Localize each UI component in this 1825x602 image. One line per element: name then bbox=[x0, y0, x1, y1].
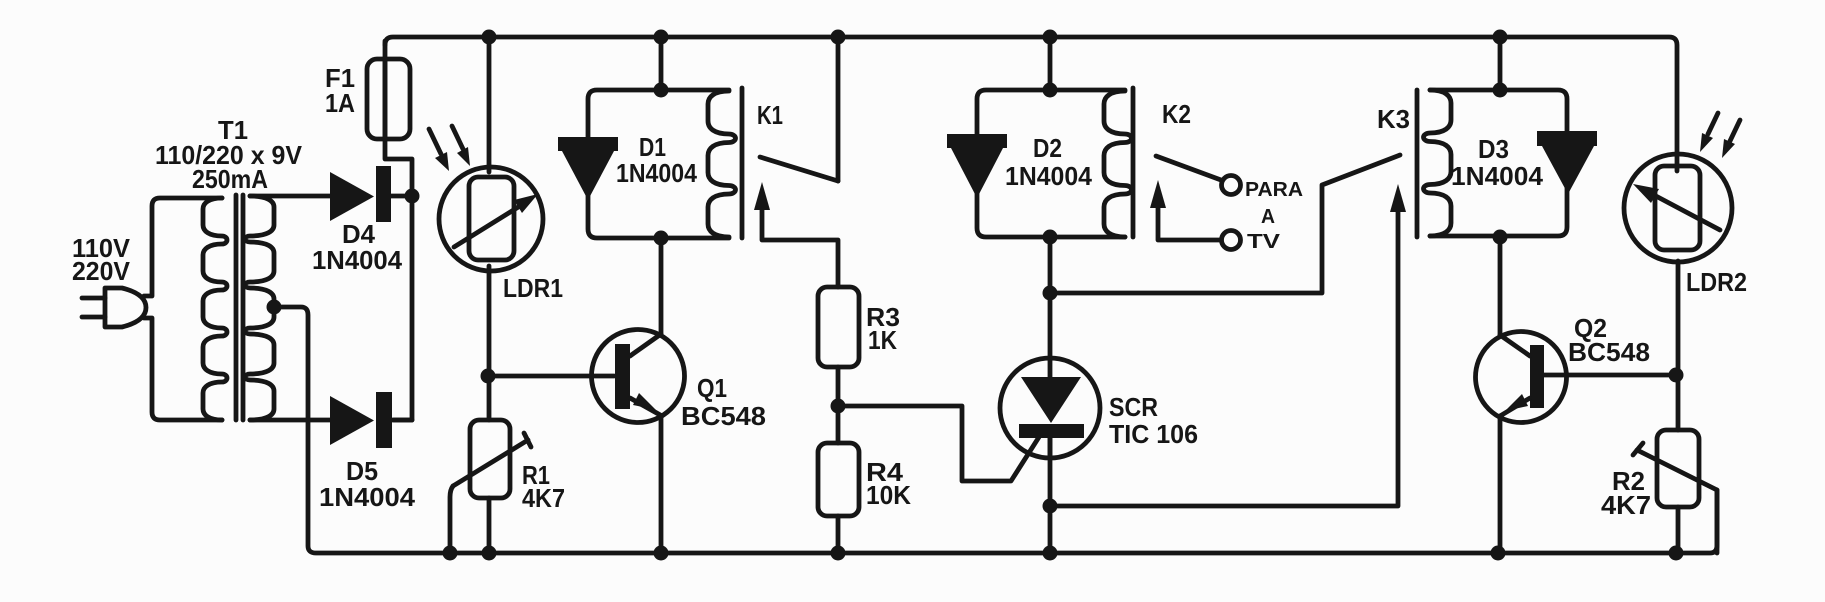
label K1 bbox=[757, 100, 783, 130]
relay K2 contact upper terminal bbox=[1222, 176, 1241, 195]
label LDR1 bbox=[503, 273, 563, 303]
wire secondary top to D4 bbox=[250, 194, 330, 199]
node K2 frame bottom bbox=[1043, 230, 1058, 245]
node top rail above D2 bbox=[1043, 30, 1058, 45]
node rectifier output at D4 cathode bbox=[405, 189, 420, 204]
svg-text:K3: K3 bbox=[1377, 104, 1410, 134]
label F1 1A bbox=[325, 63, 355, 118]
wire top supply rail bbox=[385, 37, 1677, 154]
label Q1 BC548 bbox=[681, 373, 766, 431]
relay K1 frame bbox=[588, 90, 729, 238]
wire SCR cathode to bottom rail bbox=[1048, 437, 1053, 553]
label R1 4K7 bbox=[522, 460, 565, 513]
node SCR cathode branch bbox=[1043, 499, 1058, 514]
svg-text:D2: D2 bbox=[1033, 133, 1062, 163]
node top rail above D1 bbox=[654, 30, 669, 45]
SCR TIC106 bbox=[1000, 358, 1100, 458]
svg-text:1N4004: 1N4004 bbox=[319, 482, 416, 512]
fuse F1 bbox=[367, 41, 412, 196]
svg-text:PARA: PARA bbox=[1245, 179, 1303, 201]
node secondary center tap bbox=[267, 300, 282, 315]
relay K1 coil bbox=[708, 91, 736, 237]
label Q2 BC548 bbox=[1568, 313, 1650, 367]
svg-text:1N4004: 1N4004 bbox=[312, 245, 403, 275]
relay K3 frame bbox=[1430, 90, 1567, 236]
label R4 10K bbox=[866, 457, 911, 510]
svg-text:LDR2: LDR2 bbox=[1686, 267, 1747, 297]
node LDR1 / R1 / Q1 base bbox=[481, 369, 496, 384]
label K3 bbox=[1377, 104, 1410, 134]
wire SCR cathode to K3 contact arrow bbox=[1050, 184, 1406, 506]
AC plug bbox=[82, 288, 146, 327]
transistor Q2 BC548 bbox=[1476, 332, 1677, 423]
svg-text:4K7: 4K7 bbox=[522, 483, 565, 513]
wire K1 frame to Q1 collector bbox=[659, 238, 664, 334]
label D2 1N4004 bbox=[1005, 133, 1093, 191]
relay K2 contact arm bbox=[1156, 156, 1221, 180]
label T1 110/220 x 9V 250mA bbox=[155, 115, 303, 194]
relay K2 frame bbox=[977, 90, 1125, 237]
relay K2 contact arrow bbox=[1150, 180, 1221, 240]
LDR1 bbox=[439, 37, 543, 420]
relay K2 coil bbox=[1104, 91, 1132, 237]
wire Q1 emitter to bottom rail bbox=[659, 416, 664, 553]
svg-text:10K: 10K bbox=[866, 480, 911, 510]
svg-text:1K: 1K bbox=[868, 325, 897, 355]
diode D1 bbox=[558, 137, 618, 200]
relay K1 core bbox=[740, 88, 745, 238]
label D3 1N4004 bbox=[1451, 134, 1544, 191]
label D5 1N4004 bbox=[319, 456, 416, 512]
node D2 bottom branch bbox=[1043, 286, 1058, 301]
node K1 frame top bbox=[654, 83, 669, 98]
diode D2 bbox=[947, 134, 1007, 198]
wire rail to K3 frame bbox=[1498, 37, 1503, 90]
relay K3 core bbox=[1415, 90, 1420, 237]
svg-text:220V: 220V bbox=[72, 256, 131, 286]
svg-text:1A: 1A bbox=[325, 88, 355, 118]
LDR2 bbox=[1624, 154, 1732, 430]
node top rail above K1 contact bbox=[831, 30, 846, 45]
wire secondary bottom to D5 bbox=[250, 418, 330, 423]
svg-text:TV: TV bbox=[1247, 231, 1281, 253]
LDR1 light arrows bbox=[429, 126, 470, 171]
wire rectifier output to D5 cathode bbox=[394, 196, 412, 420]
relay K1 contact arm bbox=[760, 37, 838, 181]
svg-text:BC548: BC548 bbox=[1568, 337, 1650, 367]
svg-text:1N4004: 1N4004 bbox=[1451, 161, 1544, 191]
svg-text:1N4004: 1N4004 bbox=[1005, 161, 1093, 191]
wire rail to K1 frame bbox=[659, 37, 664, 90]
label D1 1N4004 bbox=[616, 132, 697, 188]
relay K3 coil bbox=[1424, 90, 1451, 236]
node bottom rail at SCR bbox=[1043, 546, 1058, 561]
diode D3 bbox=[1537, 131, 1597, 194]
relay K2 contact lower terminal bbox=[1222, 231, 1241, 250]
resistor R3 1K bbox=[818, 287, 859, 443]
node Q2 base / LDR2 / R2 bbox=[1669, 368, 1684, 383]
svg-text:K1: K1 bbox=[757, 100, 783, 130]
node bottom rail at R2 bbox=[1669, 546, 1684, 561]
node top rail above LDR1 bbox=[482, 30, 497, 45]
transformer T1 secondary winding bbox=[245, 196, 274, 420]
svg-text:250mA: 250mA bbox=[192, 164, 268, 194]
wire plug to transformer primary bbox=[144, 198, 222, 420]
diode D4 bbox=[330, 166, 412, 222]
svg-text:A: A bbox=[1261, 206, 1275, 228]
svg-text:Q1: Q1 bbox=[697, 373, 727, 403]
label K2 bbox=[1162, 99, 1191, 129]
transformer T1 primary winding bbox=[203, 198, 227, 420]
node bottom rail at R1 wiper bbox=[443, 546, 458, 561]
svg-text:1N4004: 1N4004 bbox=[616, 158, 697, 188]
wire D2 branch to K3 contact arm bbox=[1050, 155, 1400, 293]
node R3 R4 junction bbox=[831, 399, 846, 414]
relay K2 core bbox=[1131, 88, 1136, 237]
node K3 frame bottom bbox=[1493, 230, 1508, 245]
label PARA A TV bbox=[1245, 179, 1303, 253]
potentiometer R1 4K7 bbox=[450, 420, 531, 553]
svg-text:BC548: BC548 bbox=[681, 401, 766, 431]
wire rail to K2 frame bbox=[1048, 37, 1053, 90]
label SCR TIC106 bbox=[1109, 392, 1198, 449]
node K2 frame top bbox=[1043, 83, 1058, 98]
svg-text:4K7: 4K7 bbox=[1601, 490, 1651, 520]
node top rail above K3 bbox=[1493, 30, 1508, 45]
resistor R4 10K bbox=[818, 443, 859, 553]
wire bottom rail with center-tap riser bbox=[274, 307, 1717, 553]
diode D5 bbox=[330, 392, 412, 448]
svg-text:K2: K2 bbox=[1162, 99, 1191, 129]
node bottom rail at Q1 emitter bbox=[654, 546, 669, 561]
label LDR2 bbox=[1686, 267, 1747, 297]
svg-text:TIC 106: TIC 106 bbox=[1109, 419, 1198, 449]
svg-text:SCR: SCR bbox=[1109, 392, 1158, 422]
node bottom rail at R4 bbox=[831, 546, 846, 561]
svg-text:D3: D3 bbox=[1478, 134, 1509, 164]
node bottom rail at Q2 emitter bbox=[1491, 546, 1506, 561]
svg-text:LDR1: LDR1 bbox=[503, 273, 563, 303]
node K3 frame top bbox=[1493, 83, 1508, 98]
wire K3 frame to Q2 collector bbox=[1498, 237, 1503, 335]
transistor Q1 BC548 bbox=[489, 330, 685, 423]
transformer T1 core bbox=[236, 195, 243, 420]
label R3 1K bbox=[866, 302, 900, 355]
label 110V 220V bbox=[72, 233, 131, 286]
node K1 frame bottom bbox=[654, 231, 669, 246]
LDR2 light arrows bbox=[1700, 113, 1740, 158]
wire R3/R4 junction to SCR gate bbox=[838, 406, 1039, 481]
label R2 4K7 bbox=[1601, 466, 1651, 520]
label D4 1N4004 bbox=[312, 219, 403, 275]
node bottom rail at R1 bbox=[482, 546, 497, 561]
wire Q2 emitter to bottom rail bbox=[1498, 416, 1503, 553]
relay K1 contact arrow bbox=[754, 182, 838, 287]
wire K2 frame to SCR anode bbox=[1048, 237, 1053, 360]
potentiometer R2 4K7 bbox=[1633, 430, 1717, 553]
